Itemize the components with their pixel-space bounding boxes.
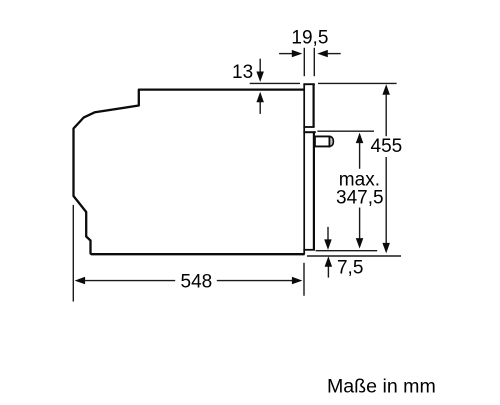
control panel right edge <box>313 84 315 127</box>
svg-text:455: 455 <box>371 136 403 157</box>
548 dimension line right part <box>217 280 293 282</box>
handle cap inner line <box>328 136 330 146</box>
7,5 up arrow <box>327 266 329 277</box>
548 dimension line left part <box>75 277 86 285</box>
19,5 right arrow <box>328 53 341 55</box>
door bottom edge <box>303 249 315 251</box>
svg-text:13: 13 <box>232 62 253 83</box>
svg-text:347,5: 347,5 <box>336 187 384 208</box>
455 dimension line with arrows <box>382 84 390 95</box>
svg-text:Maße in mm: Maße in mm <box>327 376 436 398</box>
max 347,5 dimension line with arrows <box>356 133 364 144</box>
svg-text:548: 548 <box>181 271 213 292</box>
door handle <box>315 136 330 146</box>
control panel top edge <box>303 83 314 85</box>
door bottom extension line <box>316 250 378 252</box>
13 up arrow <box>259 102 261 114</box>
7,5 down arrow <box>327 227 329 240</box>
door right edge <box>313 131 315 250</box>
13 down arrow <box>259 59 261 72</box>
19,5 extension line right <box>313 48 315 76</box>
niche bottom extension line <box>307 255 401 257</box>
control panel bottom edge <box>303 126 314 128</box>
body front face / panel left edge <box>303 84 305 255</box>
max extension line <box>317 130 374 132</box>
13 extension line <box>250 82 300 84</box>
548 left extension line <box>72 205 74 302</box>
548 right extension line <box>303 263 305 296</box>
19,5 extension line left <box>303 48 305 76</box>
door top seam <box>303 131 315 133</box>
oven body outline <box>74 90 305 255</box>
handle end cap <box>329 136 333 146</box>
svg-text:19,5: 19,5 <box>291 27 328 48</box>
455 top extension line <box>318 82 397 84</box>
19,5 left arrow <box>279 53 293 55</box>
svg-text:7,5: 7,5 <box>337 257 363 278</box>
